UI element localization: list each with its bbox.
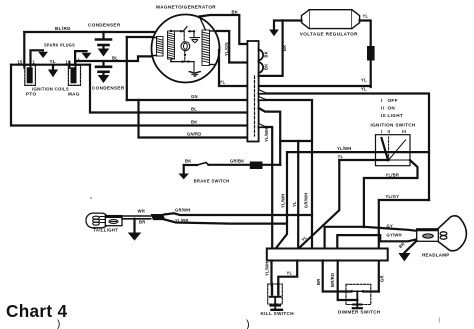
- svg-text:IGNITION COILS: IGNITION COILS: [32, 87, 69, 92]
- svg-text:YL: YL: [361, 78, 367, 83]
- voltage regulator body: [302, 10, 360, 29]
- spark plug 1 wire from PTO coil terminal 1: [31, 50, 44, 65]
- kill switch wire YL/WH below bar: [270, 261, 272, 286]
- svg-text:WH: WH: [138, 209, 145, 214]
- svg-text:YL/GY: YL/GY: [386, 194, 400, 199]
- wire BK from connector to regulator stub: [259, 21, 283, 76]
- artifact tick bottom right: [439, 318, 440, 323]
- dimmer switch lever: [356, 291, 358, 304]
- kill switch prongs: [272, 284, 278, 295]
- condenser C1 top: [96, 32, 111, 56]
- magneto coil B (primary): [168, 31, 175, 62]
- headlamp socket: [417, 229, 447, 242]
- wire YL/BR from connector to v2: [164, 220, 287, 224]
- dimmer switch contacts: [350, 290, 353, 293]
- wire GY/WH: [337, 235, 416, 248]
- svg-text:TAILLIGHT: TAILLIGHT: [93, 228, 118, 233]
- svg-text:GR/WH: GR/WH: [175, 208, 190, 213]
- svg-text:GR: GR: [380, 275, 385, 282]
- wire YL e2: connector to right side down: [259, 94, 429, 201]
- brake switch contact: [197, 163, 209, 166]
- svg-text:YL/GN: YL/GN: [224, 42, 229, 56]
- svg-text:BL: BL: [191, 107, 197, 112]
- connector bar (bottom): [267, 249, 388, 261]
- wire GN bus: [127, 99, 248, 101]
- svg-text:DIMMER SWITCH: DIMMER SWITCH: [338, 310, 381, 315]
- wire vertical x126.8 from y37 down to GN corner: [126, 37, 128, 100]
- svg-text:BRAKE SWITCH: BRAKE SWITCH: [194, 179, 230, 184]
- svg-text:I: I: [381, 129, 382, 134]
- svg-text:YL/WH: YL/WH: [264, 128, 269, 143]
- svg-text:GY/WH: GY/WH: [387, 233, 402, 238]
- wire jog y141 connecting x280.2 to x312: [280, 140, 312, 142]
- svg-text:): ): [57, 319, 60, 329]
- wire magneto bottom bus: [171, 61, 194, 63]
- wire YL into switch pivot: [339, 159, 388, 161]
- ignition coil PTO dashed box: [25, 65, 36, 85]
- fuse (black): [367, 46, 375, 61]
- ground YL arrow below bus: [52, 65, 54, 70]
- wire coil bus y64.7: [11, 64, 90, 66]
- svg-text:PTO: PTO: [26, 92, 36, 97]
- svg-text:YL: YL: [363, 14, 369, 19]
- svg-text:III LIGHT: III LIGHT: [381, 113, 403, 118]
- svg-text:YL: YL: [50, 59, 57, 64]
- svg-text:BK: BK: [191, 120, 197, 125]
- artifact speck: [90, 197, 92, 199]
- wire vertical x298.2 down to bar: [297, 141, 299, 249]
- svg-text:YL: YL: [220, 80, 226, 85]
- wire BL bus: [90, 65, 247, 113]
- wire stub y37 from BL/RD drop to magneto: [127, 36, 153, 38]
- wire YL/WH to ignition switch (through box): [287, 151, 429, 153]
- node magneto top (BK takeoff): [198, 15, 201, 18]
- svg-text:YL/WH: YL/WH: [280, 194, 285, 209]
- svg-text:VOLTAGE REGULATOR: VOLTAGE REGULATOR: [300, 32, 358, 37]
- spark plug 2 wire from MAG coil terminal 1: [75, 51, 86, 65]
- svg-text:BK: BK: [185, 159, 191, 164]
- wire BL/RD top-left horizontal: [24, 31, 154, 33]
- svg-text:III: III: [402, 129, 406, 134]
- svg-text:YL: YL: [361, 87, 367, 92]
- kill switch ground (I-beam): [274, 298, 276, 305]
- ignition switch lever III (thin): [389, 140, 406, 160]
- taillight bulb: [86, 213, 122, 228]
- magneto condenser (circle with capsule): [181, 32, 190, 63]
- svg-text:YL: YL: [287, 271, 293, 276]
- wire YL/BR from switch box: [364, 160, 418, 227]
- ignition coil MAG winding: [71, 67, 77, 83]
- svg-text:): ): [246, 319, 250, 329]
- ground (points, upper): [190, 31, 200, 42]
- svg-text:II: II: [388, 129, 391, 134]
- svg-text:GN: GN: [191, 94, 198, 99]
- svg-text:MAG: MAG: [68, 92, 80, 97]
- magneto/generator circle: [152, 15, 220, 83]
- svg-text:BK: BK: [264, 64, 269, 70]
- svg-text:BR: BR: [139, 220, 145, 225]
- svg-text:YL: YL: [338, 154, 344, 159]
- svg-text:HEADLAMP: HEADLAMP: [422, 253, 450, 258]
- svg-text:MAGNETO/GENERATOR: MAGNETO/GENERATOR: [156, 5, 216, 10]
- ignition switch lever II (dashed): [388, 137, 390, 160]
- svg-text:YL/WH: YL/WH: [337, 146, 352, 151]
- wire YL/GN from magneto right: [217, 31, 247, 63]
- svg-text:SPARK PLUGS: SPARK PLUGS: [44, 43, 75, 48]
- kill switch bar contact: [270, 296, 281, 298]
- wire GR/WH from connector to v e3: [164, 213, 312, 215]
- svg-text:I OFF: I OFF: [381, 98, 398, 103]
- wire v2: YL/WH switch wire down + diagonal to bar: [276, 152, 287, 248]
- condenser C2: [96, 61, 111, 82]
- headlamp envelope: [437, 216, 466, 251]
- svg-text:IGNITION SWITCH: IGNITION SWITCH: [371, 123, 416, 128]
- svg-text:CONDENSER: CONDENSER: [92, 86, 125, 91]
- taillight ground: [133, 219, 135, 233]
- connector bump BK 1: [259, 50, 264, 61]
- svg-text:BR: BR: [316, 279, 321, 285]
- spark plug 1 arrow: [39, 52, 47, 57]
- svg-text:II ON: II ON: [381, 106, 395, 111]
- svg-text:BR/RD: BR/RD: [330, 273, 335, 287]
- svg-text:GY: GY: [387, 224, 393, 229]
- svg-text:GR/WH: GR/WH: [303, 193, 308, 208]
- svg-text:BK: BK: [232, 10, 238, 15]
- wire WH from taillight: [122, 215, 151, 217]
- svg-text:CONDENSER: CONDENSER: [88, 23, 121, 28]
- wire regulator right YL down: [360, 21, 371, 88]
- wire pivot to box right edge: [388, 159, 410, 161]
- brake wire black connector: [250, 162, 263, 170]
- taillight harness connector (black): [151, 214, 166, 220]
- wire e3: connector to x312 down to bar (GR/WH): [259, 100, 312, 249]
- connector block (main harness): [247, 41, 263, 142]
- spark plug 2 arrow: [83, 53, 91, 58]
- wire e5: connector bottom exit down to bar (YL/WH): [259, 127, 273, 249]
- wire GN/RD bus: [139, 100, 248, 138]
- dimmer switch box: [346, 284, 371, 304]
- ignition coil PTO terminals: [23, 62, 25, 68]
- magneto coil A (ignition source): [153, 37, 164, 57]
- svg-text:BK: BK: [282, 45, 287, 51]
- svg-text:BL/RD: BL/RD: [55, 26, 71, 31]
- wire YL diagonal from switch to bar: [299, 160, 340, 249]
- svg-text:Chart 4: Chart 4: [6, 301, 67, 321]
- wire BL from MAG coil to magneto: [76, 56, 153, 61]
- node switch pivot: [387, 159, 390, 162]
- magneto coil C (lighting): [200, 17, 218, 66]
- wire e4: connector to x298.2 down to bar (YL): [259, 108, 281, 165]
- dimmer wire BR/RD below bar: [338, 261, 358, 301]
- wire regulator left stub + ground: [274, 21, 302, 30]
- svg-text:YL/WH: YL/WH: [265, 262, 270, 277]
- ignition switch lever I (thick): [382, 138, 389, 160]
- wire PTO coil 15 terminal up to BL/RD: [23, 32, 25, 66]
- kill switch box: [268, 284, 283, 304]
- ignition coil PTO winding: [27, 67, 33, 83]
- wire brake connector to v1 and v_b: [263, 164, 281, 166]
- wire BK from magneto top to connector: [200, 15, 248, 44]
- ground (magneto bottom): [189, 62, 200, 78]
- dimmer ground I-beam: [353, 304, 361, 306]
- svg-text:YL/BR: YL/BR: [386, 173, 400, 178]
- headlamp ground BR: [405, 241, 417, 253]
- magneto points assembly: [170, 27, 195, 33]
- brake switch: BK stub and ground: [184, 164, 197, 166]
- svg-text:BK: BK: [264, 51, 269, 57]
- wire YL from magneto rightmost point down and right (through connector): [219, 50, 371, 86]
- kill switch wire YL below bar: [278, 261, 297, 286]
- svg-text:YL: YL: [292, 201, 297, 207]
- wire GY: [325, 227, 417, 249]
- wire GR/BK brake to connector: [209, 164, 250, 166]
- svg-text:15: 15: [18, 60, 24, 65]
- connector bump BK 2: [259, 62, 264, 73]
- wire BR from taillight: [122, 218, 151, 220]
- wire left border BK: down left side: [11, 65, 252, 126]
- svg-text:GN/RD: GN/RD: [187, 132, 202, 137]
- svg-text:YL/BR: YL/BR: [175, 218, 189, 223]
- ignition switch box: [376, 135, 411, 166]
- dimmer wire BR below bar: [323, 261, 351, 292]
- ignition coil MAG terminals: [69, 62, 71, 68]
- svg-text:BL: BL: [112, 56, 118, 61]
- svg-text:GR/BK: GR/BK: [230, 158, 245, 163]
- dimmer wire GR right side: [364, 290, 379, 292]
- svg-text:KILL SWITCH: KILL SWITCH: [261, 311, 295, 316]
- ignition coil MAG dashed box: [68, 65, 80, 85]
- wire YL/GY: [379, 200, 429, 292]
